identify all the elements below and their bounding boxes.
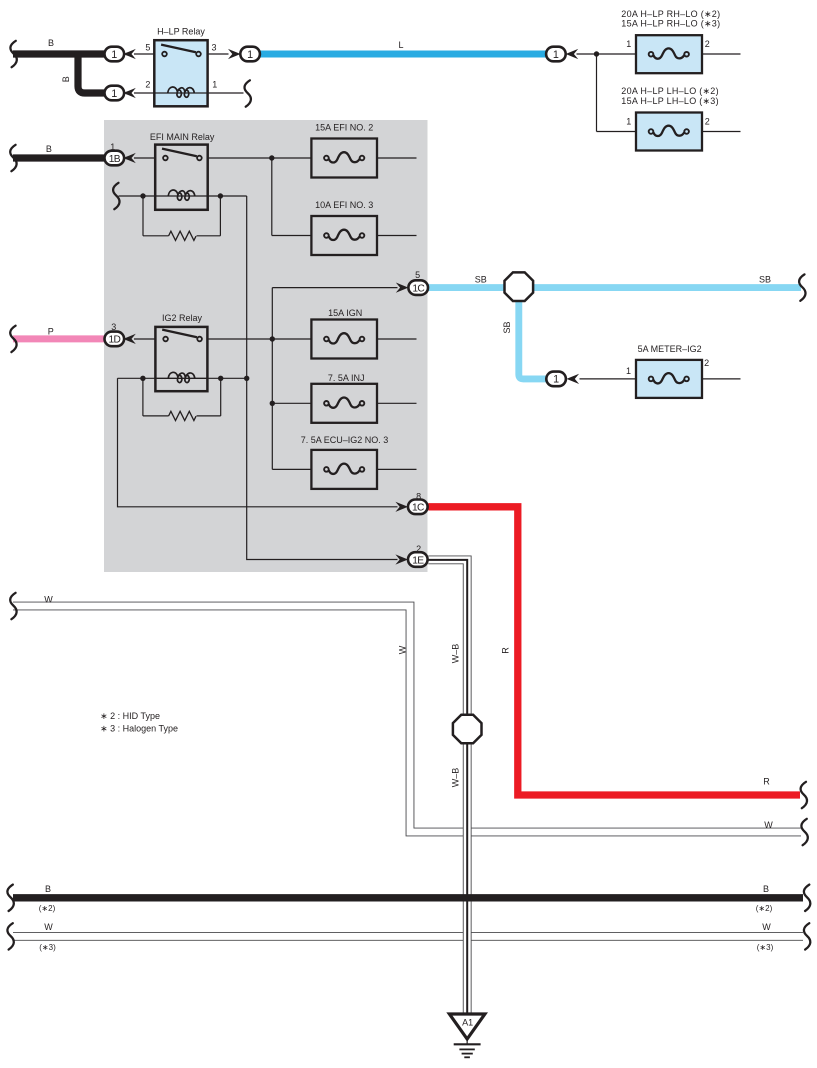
svg-text:H–LP Relay: H–LP Relay xyxy=(157,27,205,37)
wire to 10A EFI NO.3 fuse xyxy=(272,235,312,237)
switch EFI MAIN relay contacts xyxy=(162,149,197,157)
wire IG2 relay coil left xyxy=(118,377,156,379)
node IGN fuse junction xyxy=(270,336,275,341)
arrow into connector 1C pin8 xyxy=(395,502,408,512)
connector 1 (L wire right end) xyxy=(546,47,566,62)
coil IG2 relay xyxy=(155,377,207,379)
svg-text:R: R xyxy=(500,647,510,654)
wire SB branch down to METER-IG2 fuse xyxy=(519,288,547,379)
arrow into connector 1 (L wire right end) xyxy=(566,49,579,59)
svg-text:3: 3 xyxy=(211,42,216,52)
wire IG2 resistor right leg xyxy=(220,378,222,416)
svg-text:1: 1 xyxy=(553,49,559,61)
wire EFI MAIN relay coil right xyxy=(208,195,247,197)
wire B thick to connector 1B xyxy=(13,154,114,161)
arrow into connector 1 (H-LP pin2) xyxy=(123,88,136,98)
wire H-LP LH-LO fuse output xyxy=(702,131,741,133)
svg-text:1: 1 xyxy=(247,49,253,61)
continuation P left xyxy=(10,326,16,352)
svg-text:5A METER–IG2: 5A METER–IG2 xyxy=(638,344,702,354)
connector 1D xyxy=(105,332,125,347)
wire connector 1B to EFI MAIN relay pin xyxy=(134,157,155,159)
connector 1 (METER-IG2) xyxy=(546,372,566,387)
arrow into connector 1C pin5 xyxy=(396,283,409,293)
continuation B bottom left xyxy=(7,885,13,911)
switch H-LP relay contacts xyxy=(161,45,196,53)
continuation SB right xyxy=(799,274,805,300)
wire to 7.5A ECU-IG2 fuse xyxy=(272,468,311,470)
svg-text:3: 3 xyxy=(111,322,116,332)
wire vertical EFI coil to connector 1E xyxy=(247,196,398,560)
svg-text:SB: SB xyxy=(759,275,771,285)
continuation R right xyxy=(801,782,807,808)
continuation B at 1B xyxy=(10,145,16,171)
node INJ fuse junction xyxy=(270,401,275,406)
wire IG2 coil left to connector 1C pin8 xyxy=(118,378,398,507)
wire IG2 relay coil right xyxy=(207,377,246,379)
svg-text:1: 1 xyxy=(111,49,117,61)
wire EFI resistor left leg xyxy=(142,196,144,236)
connector 1 (H-LP pin5) xyxy=(105,47,125,62)
svg-text:15A H–LP LH–LO (∗3): 15A H–LP LH–LO (∗3) xyxy=(621,96,719,106)
svg-text:(∗2): (∗2) xyxy=(39,904,56,913)
arrow into connector 1B xyxy=(123,153,136,163)
continuation W right xyxy=(801,819,807,845)
junction block panel background xyxy=(104,120,428,572)
fuse symbol H-LP LH-LO xyxy=(649,129,654,134)
wire EFI resistor row left xyxy=(143,235,169,237)
svg-text:20A H–LP LH–LO (∗2): 20A H–LP LH–LO (∗2) xyxy=(621,86,719,96)
wire 15A IGN fuse output xyxy=(377,338,417,340)
relay EFI MAIN Relay box xyxy=(155,145,208,210)
wire connector 1D to IG2 relay pin xyxy=(134,338,155,340)
node EFI coil right junction xyxy=(218,193,223,198)
wire EFI MAIN relay to EFI fuses xyxy=(208,157,312,159)
resistor EFI MAIN relay xyxy=(169,231,196,240)
svg-text:20A H–LP RH–LO (∗2): 20A H–LP RH–LO (∗2) xyxy=(621,9,720,19)
svg-text:2: 2 xyxy=(704,358,709,368)
wire R red from connector 1C pin8 xyxy=(428,507,800,795)
wire 7.5A INJ fuse output xyxy=(377,402,417,404)
svg-text:15A H–LP RH–LO (∗3): 15A H–LP RH–LO (∗3) xyxy=(621,19,720,29)
fuse 7.5A INJ box xyxy=(311,384,377,423)
fuse 20A/15A H-LP RH-LO box xyxy=(636,35,702,73)
svg-text:W: W xyxy=(44,922,53,932)
svg-text:2: 2 xyxy=(416,544,421,554)
svg-text:SB: SB xyxy=(502,321,512,333)
connector 1C pin5 xyxy=(408,280,428,295)
fuse symbol 15A IGN xyxy=(324,337,329,342)
coil H-LP relay xyxy=(154,92,207,94)
coil EFI MAIN relay xyxy=(155,195,208,197)
wire B thick top-left to H-LP relay xyxy=(13,50,114,57)
wire H-LP RH-LO fuse output xyxy=(702,53,741,55)
fuse 5A METER-IG2 box xyxy=(636,360,702,398)
junction splice octagon SB xyxy=(505,272,534,301)
continuation H-LP pin1 xyxy=(244,80,250,106)
wire EFI resistor right leg xyxy=(219,196,221,236)
fuse 10A EFI NO.3 box xyxy=(311,216,377,255)
wire W bottom horizontal (*3) xyxy=(13,932,803,941)
switch IG2 relay contacts xyxy=(162,330,197,338)
fuse 20A/15A H-LP LH-LO box xyxy=(636,113,702,151)
svg-text:7. 5A INJ: 7. 5A INJ xyxy=(328,373,365,383)
wire H-LP relay pin3 to connector xyxy=(208,53,229,55)
wire W-B from connector 1E down to ground xyxy=(428,560,467,1013)
wire B thick bottom horizontal (*2) xyxy=(13,894,803,901)
node fuse feed junction top-right xyxy=(594,51,599,56)
fuse symbol 7.5A ECU-IG2 NO.3 xyxy=(324,467,329,472)
svg-text:W–B: W–B xyxy=(451,768,461,788)
wire vertical EFI fuse column xyxy=(271,158,273,236)
wire L blue from H-LP relay to fuses xyxy=(257,51,546,58)
fuse 15A EFI NO.2 box xyxy=(311,139,377,178)
wire EFI resistor row right xyxy=(197,235,221,237)
svg-text:B: B xyxy=(61,76,71,82)
connector 1 (H-LP pin2) xyxy=(105,86,125,101)
svg-text:EFI MAIN Relay: EFI MAIN Relay xyxy=(150,132,215,142)
svg-text:(∗3): (∗3) xyxy=(757,943,774,952)
svg-text:1C: 1C xyxy=(412,503,424,514)
ground bar 2 xyxy=(459,1048,474,1050)
node IG2 coil to 1E column junction xyxy=(244,376,249,381)
connector 1E pin2 xyxy=(408,552,428,567)
svg-text:1B: 1B xyxy=(109,154,121,165)
svg-text:B: B xyxy=(763,884,769,894)
svg-text:8: 8 xyxy=(416,491,421,501)
svg-text:2: 2 xyxy=(705,117,710,127)
junction splice octagon W-B xyxy=(453,715,482,744)
wire IG2 resistor row right xyxy=(197,415,221,417)
svg-text:W: W xyxy=(398,645,408,654)
svg-text:1: 1 xyxy=(111,88,117,100)
svg-text:2: 2 xyxy=(705,39,710,49)
svg-text:1: 1 xyxy=(626,39,631,49)
wire to connector 1C pin5 xyxy=(272,287,397,289)
svg-text:B: B xyxy=(46,144,52,154)
svg-text:SB: SB xyxy=(475,275,487,285)
svg-text:L: L xyxy=(398,40,403,50)
svg-text:1D: 1D xyxy=(108,335,120,346)
svg-text:P: P xyxy=(48,326,54,336)
wire L-connector to fuse column xyxy=(577,53,637,55)
wire H-LP relay pin5 to connector xyxy=(134,53,154,55)
svg-text:W: W xyxy=(762,922,771,932)
relay H-LP Relay box xyxy=(154,40,207,106)
svg-text:W: W xyxy=(44,595,53,605)
connector 1B xyxy=(105,151,125,166)
relay IG2 Relay box xyxy=(155,327,207,391)
wire W from left, down and right xyxy=(13,606,801,832)
svg-text:(∗2): (∗2) xyxy=(756,904,773,913)
svg-text:1: 1 xyxy=(110,142,115,152)
connector 1 (H-LP pin3 to L wire) xyxy=(240,47,260,62)
continuation EFI coil left xyxy=(113,183,119,209)
continuation W left xyxy=(10,593,16,619)
wire EFI MAIN relay coil left xyxy=(119,195,156,197)
node EFI coil left junction xyxy=(140,193,145,198)
svg-text:∗ 2 : HID Type: ∗ 2 : HID Type xyxy=(100,711,160,721)
ground A1 triangle xyxy=(449,1014,485,1039)
node EFI fuse feed junction xyxy=(269,155,274,160)
fuse symbol 10A EFI NO.3 xyxy=(324,233,329,238)
node IG2 coil right junction xyxy=(218,376,223,381)
continuation B top-left xyxy=(10,41,16,67)
svg-text:1E: 1E xyxy=(412,555,424,566)
svg-text:(∗3): (∗3) xyxy=(39,943,56,952)
fuse symbol 7.5A INJ xyxy=(324,401,329,406)
node IG2 coil left junction xyxy=(140,376,145,381)
svg-text:10A EFI NO. 3: 10A EFI NO. 3 xyxy=(315,200,373,210)
arrow into connector 1 (H-LP pin5) xyxy=(123,49,136,59)
svg-text:15A EFI NO. 2: 15A EFI NO. 2 xyxy=(315,122,373,132)
wire 5A METER-IG2 fuse input xyxy=(580,378,637,380)
arrow into connector 1E pin2 xyxy=(395,554,408,564)
continuation W bottom left xyxy=(7,923,13,949)
wire SB horizontal xyxy=(428,284,801,291)
svg-text:1C: 1C xyxy=(412,283,424,294)
fuse symbol 5A METER-IG2 xyxy=(649,377,654,382)
continuation B bottom right xyxy=(804,885,810,911)
svg-text:1: 1 xyxy=(553,374,559,386)
svg-text:W: W xyxy=(764,820,773,830)
wire H-LP relay pin1 to continuation xyxy=(208,92,244,94)
svg-text:∗ 3 : Halogen Type: ∗ 3 : Halogen Type xyxy=(100,724,178,734)
svg-text:5: 5 xyxy=(145,42,150,52)
ground bar 4 xyxy=(464,1056,470,1058)
svg-text:B: B xyxy=(48,38,54,48)
arrow into connector 1 (H-LP pin3) xyxy=(228,49,241,59)
resistor IG2 relay xyxy=(169,411,196,420)
wire to 7.5A INJ fuse xyxy=(272,402,311,404)
fuse 7.5A ECU-IG2 NO.3 box xyxy=(311,450,377,489)
svg-text:1: 1 xyxy=(626,117,631,127)
wire 5A METER-IG2 fuse output xyxy=(702,378,741,380)
wire IG2 resistor left leg xyxy=(142,378,144,416)
wire 7.5A ECU-IG2 fuse output xyxy=(377,468,417,470)
svg-text:7. 5A ECU–IG2 NO. 3: 7. 5A ECU–IG2 NO. 3 xyxy=(301,435,389,445)
arrow into connector 1 (METER-IG2) xyxy=(567,374,580,384)
svg-text:15A IGN: 15A IGN xyxy=(328,308,362,318)
wire 15A EFI NO.2 fuse output xyxy=(377,157,417,159)
svg-text:A1: A1 xyxy=(462,1018,473,1028)
wire P pink to connector 1D xyxy=(13,335,114,342)
ground stem xyxy=(466,1039,468,1044)
svg-text:1: 1 xyxy=(212,80,217,90)
fuse 15A IGN box xyxy=(311,320,377,359)
ground bar 3 xyxy=(462,1053,473,1055)
fuse symbol H-LP RH-LO xyxy=(649,52,654,57)
svg-text:IG2 Relay: IG2 Relay xyxy=(162,313,203,323)
wire vertical IG2 fuse column xyxy=(271,288,273,470)
wire IG2 resistor row left xyxy=(143,415,169,417)
svg-text:5: 5 xyxy=(415,270,420,280)
connector 1C pin8 xyxy=(408,500,428,515)
wire H-LP relay pin2 to connector xyxy=(134,92,154,94)
wire IG2 relay to IGN fuse xyxy=(207,338,311,340)
fuse symbol 15A EFI NO.2 xyxy=(324,156,329,161)
wire 10A EFI NO.3 fuse output xyxy=(377,235,417,237)
svg-text:1: 1 xyxy=(626,366,631,376)
wire vertical fuse column top-right xyxy=(596,54,598,132)
arrow into connector 1D xyxy=(123,334,136,344)
svg-text:R: R xyxy=(763,777,770,787)
svg-text:2: 2 xyxy=(145,80,150,90)
svg-text:W–B: W–B xyxy=(451,644,461,664)
svg-text:B: B xyxy=(45,884,51,894)
continuation W bottom right xyxy=(804,923,810,949)
ground bar 1 xyxy=(454,1043,481,1045)
wire to H-LP LH-LO fuse xyxy=(597,131,637,133)
